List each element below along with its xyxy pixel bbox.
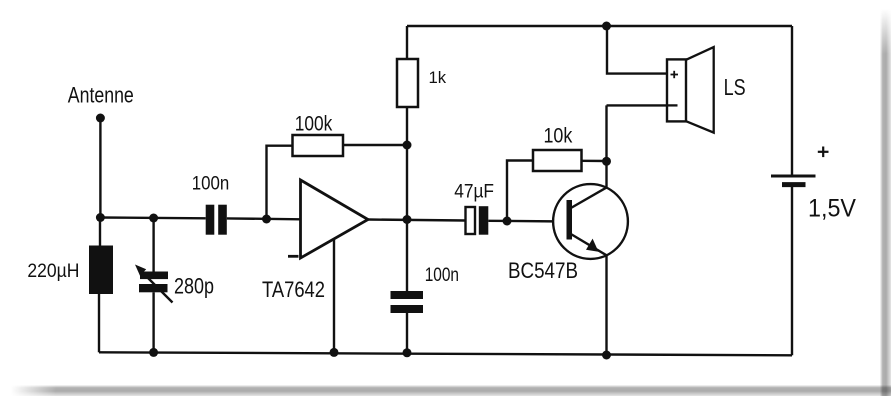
loudspeaker minus mark (668, 104, 678, 106)
capacitor 100n output plate bottom (391, 305, 424, 313)
transistor collector stroke (570, 187, 608, 209)
svg-text:1,5V: 1,5V (808, 195, 856, 223)
wire 47uF to base (488, 220, 566, 223)
node junction emitter/ground rail (602, 351, 611, 360)
node junction 280p top (149, 214, 158, 223)
svg-text:280p: 280p (174, 273, 214, 298)
wire amp output to 47uF (368, 220, 466, 221)
wire output cap top lead (406, 220, 408, 292)
capacitor 100n input plate right (218, 205, 227, 235)
transistor emitter stroke (570, 234, 607, 256)
loudspeaker LS body (667, 59, 686, 121)
svg-text:1k: 1k (429, 68, 447, 87)
wire emitter down lead (605, 255, 607, 355)
svg-text:Antenne: Antenne (68, 83, 134, 108)
resistor 10k (533, 150, 582, 171)
resistor 100k (293, 135, 344, 156)
wire inductor bottom lead (98, 294, 100, 352)
wire battery bottom lead (791, 185, 793, 356)
wire speaker plus feed (607, 26, 667, 74)
node junction 1k/100k (403, 141, 412, 150)
wire bottom ground rail (99, 352, 792, 355)
wire 100k right lead (341, 144, 407, 146)
battery 1.5V positive plate (771, 175, 816, 178)
wire antenna down lead (99, 118, 101, 218)
wire output cap bottom lead (406, 313, 408, 353)
node antenna terminal (96, 114, 105, 123)
wire 10k right lead (582, 160, 607, 163)
op-amp minus mark (288, 255, 299, 258)
svg-text:47µF: 47µF (454, 181, 494, 202)
node junction 100k/amp input (262, 215, 271, 224)
wire signal line left (100, 216, 205, 219)
wire 1k top lead (406, 26, 408, 59)
resistor 1k (397, 59, 418, 107)
transistor Q1 BC547B circle (553, 184, 628, 259)
loudspeaker cone (686, 47, 714, 133)
wire 280p bottom lead (152, 292, 154, 352)
node junction antenna/tank (96, 213, 105, 222)
node junction 280p/ground rail (149, 348, 158, 357)
battery 1.5V negative plate (782, 182, 806, 187)
capacitor 47uF plate left (466, 207, 476, 234)
capacitor 280p plate bottom (139, 284, 168, 292)
svg-text:220µH: 220µH (27, 260, 79, 282)
node junction top rail/speaker (602, 22, 611, 31)
svg-text:100n: 100n (192, 173, 230, 195)
svg-text:BC547B: BC547B (508, 258, 578, 283)
wire signal into amp (227, 217, 301, 220)
svg-text:100k: 100k (295, 112, 333, 135)
battery plus mark (818, 147, 829, 158)
wire 1k bottom lead (406, 107, 408, 145)
wire battery top lead (791, 26, 793, 176)
capacitor 280p plate top (140, 272, 168, 280)
transistor base bar (567, 200, 573, 240)
capacitor 280p trimmer arrow (135, 265, 173, 303)
node junction amp output (403, 215, 412, 224)
node junction TA7642/ground rail (330, 348, 339, 357)
wire 280p top lead (152, 218, 154, 272)
node junction 10k/collector (602, 157, 611, 166)
wire speaker minus feed (607, 104, 678, 106)
capacitor 100n output plate top (391, 291, 424, 299)
loudspeaker plus mark (671, 71, 679, 78)
wire amp output column (406, 145, 408, 220)
op-amp TA7642 triangle (301, 180, 369, 258)
node junction base/10k (503, 217, 512, 226)
svg-text:TA7642: TA7642 (262, 277, 325, 302)
wire 10k left lead (507, 161, 533, 222)
svg-text:100n: 100n (425, 264, 459, 286)
wire top supply rail (407, 25, 792, 27)
svg-text:LS: LS (724, 74, 746, 100)
inductor 220uH (89, 246, 113, 295)
capacitor 100n input plate left (206, 205, 215, 235)
capacitor 47uF plate right (479, 206, 489, 235)
wire collector up lead (605, 105, 607, 187)
wire 100k left lead (267, 146, 294, 219)
svg-text:10k: 10k (544, 124, 573, 147)
wire TA7642 ground pin (333, 239, 335, 352)
wire inductor top lead (99, 218, 101, 246)
node junction output cap/ground rail (403, 348, 412, 357)
